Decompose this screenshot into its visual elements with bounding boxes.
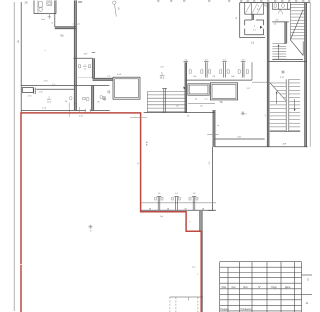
notch wall black [199, 211, 201, 232]
wall core fills [74, 0, 76, 85]
tiny label right of wall [78, 1, 82, 3]
svg-text:N°: N° [258, 286, 261, 289]
upper flight treads [291, 4, 305, 6]
svg-text:эк: эк [137, 162, 139, 164]
mid flight treads [272, 43, 286, 45]
svg-text:Проверил: Проверил [241, 308, 253, 311]
partition stub below room 4.4 [251, 14, 253, 20]
corridor wall A [215, 138, 265, 140]
east wall of hall upper [212, 110, 214, 147]
flight divider [285, 79, 287, 131]
stairwell west wall [266, 3, 268, 147]
svg-text:4.8: 4.8 [193, 193, 196, 195]
main stair right flight [289, 78, 300, 80]
svg-text:СО: СО [205, 99, 208, 101]
svg-text:1.0: 1.0 [251, 42, 255, 45]
left flight cut diagonal [270, 83, 286, 101]
south stall row [141, 202, 216, 204]
long interior wall upper [21, 85, 109, 87]
kiosk box1 [188, 84, 209, 95]
red joint break [20, 264, 22, 266]
door tick [207, 134, 218, 136]
svg-text:1.9Г: 1.9Г [107, 76, 110, 78]
svg-text:Кол: Кол [232, 286, 237, 289]
grid axis line (far left) [13, 2, 15, 311]
hook fixtures [189, 70, 191, 73]
WC fixture cistern [39, 2, 43, 7]
svg-text:4.8: 4.8 [205, 59, 208, 61]
kiosk box0 double outline [113, 77, 140, 99]
svg-text:Подп: Подп [271, 286, 277, 289]
svg-text:1иР: 1иР [83, 53, 87, 55]
svg-text:О: О [307, 278, 309, 281]
east wall along red leg [202, 231, 204, 312]
stall row bottom line [186, 79, 252, 81]
star datum small room [103, 98, 107, 100]
svg-text:4.8: 4.8 [242, 59, 245, 61]
left flight up arrow [276, 92, 278, 104]
svg-text:4.8: 4.8 [175, 193, 178, 195]
room 2.1 with doors [244, 20, 246, 25]
lower rooms fixtures [83, 97, 86, 99]
second wall line [36, 88, 74, 90]
svg-text:4.8: 4.8 [223, 59, 226, 61]
cropped dimension texts top edge [157, 0, 159, 1]
axis balloon with leader [113, 1, 116, 4]
WC room top-left [33, 0, 35, 13]
cloakroom stall row [184, 62, 186, 112]
wall below room 1.0 [240, 37, 265, 39]
stair block outer walls [240, 2, 311, 4]
svg-text:4.8: 4.8 [184, 59, 187, 61]
door tick on wall [73, 23, 80, 25]
double wall below WC room [93, 77, 114, 79]
svg-text:Юк: Юк [276, 20, 279, 22]
svg-text:4.8: 4.8 [158, 193, 161, 195]
bottom wall of left wing [21, 110, 85, 112]
kiosk box2 [210, 83, 237, 100]
axis cross marker [48, 14, 50, 19]
WC room A [74, 57, 93, 59]
svg-text:2иР: 2иР [282, 144, 286, 146]
svg-text:Дата: Дата [285, 286, 291, 289]
wall under boxes [188, 103, 215, 105]
right flight down arrow [294, 99, 296, 111]
door leaf / pier [22, 88, 33, 93]
dimension tick at red corner [130, 117, 147, 119]
room divider walls lower band [73, 86, 75, 111]
upper core room wall [272, 21, 289, 23]
east wall lower to foot [212, 147, 214, 211]
door swing arcs [278, 9, 283, 14]
room Юк thick right+bottom wall [54, 0, 56, 26]
porch dashed outline [170, 296, 203, 298]
room 4.4 [245, 3, 264, 15]
mid flight arrow [278, 45, 280, 59]
star datum 1Г (big hall) [88, 226, 92, 228]
upper section bottom walls [272, 58, 303, 60]
WC stalls top of stairwell [271, 3, 273, 10]
svg-text:Юк: Юк [193, 76, 196, 78]
svg-text:Разраб.: Разраб. [221, 308, 230, 311]
south outer wall B [215, 146, 308, 148]
steps center stringer [163, 89, 165, 113]
title block grid [220, 261, 302, 263]
svg-text:14.2: 14.2 [160, 77, 165, 80]
star datum 2 [241, 112, 245, 114]
west wall (double) [20, 2, 22, 113]
upper flight cut diagonal [290, 10, 303, 40]
svg-text:Изм: Изм [222, 286, 227, 289]
svg-text:Лист: Лист [243, 286, 249, 289]
stair direction mark [183, 87, 185, 90]
under-stair triangle [302, 42, 304, 56]
svg-text:з: з [197, 273, 198, 275]
hall bottom wall to east [144, 112, 215, 114]
svg-text:у: у [190, 221, 191, 223]
sink fixture [47, 1, 52, 5]
dimension tick x69 [68, 103, 70, 117]
svg-text:2·17: 2·17 [280, 77, 285, 79]
red boundary polygon [21, 113, 201, 312]
landing bottom line [270, 131, 300, 133]
cap tick above WC wall [92, 51, 95, 53]
svg-text:2Б: 2Б [24, 0, 27, 4]
svg-text:1.6: 1.6 [52, 84, 55, 86]
entrance steps flight [147, 91, 186, 93]
main stair left flight [270, 82, 286, 84]
title block right column [302, 274, 313, 276]
